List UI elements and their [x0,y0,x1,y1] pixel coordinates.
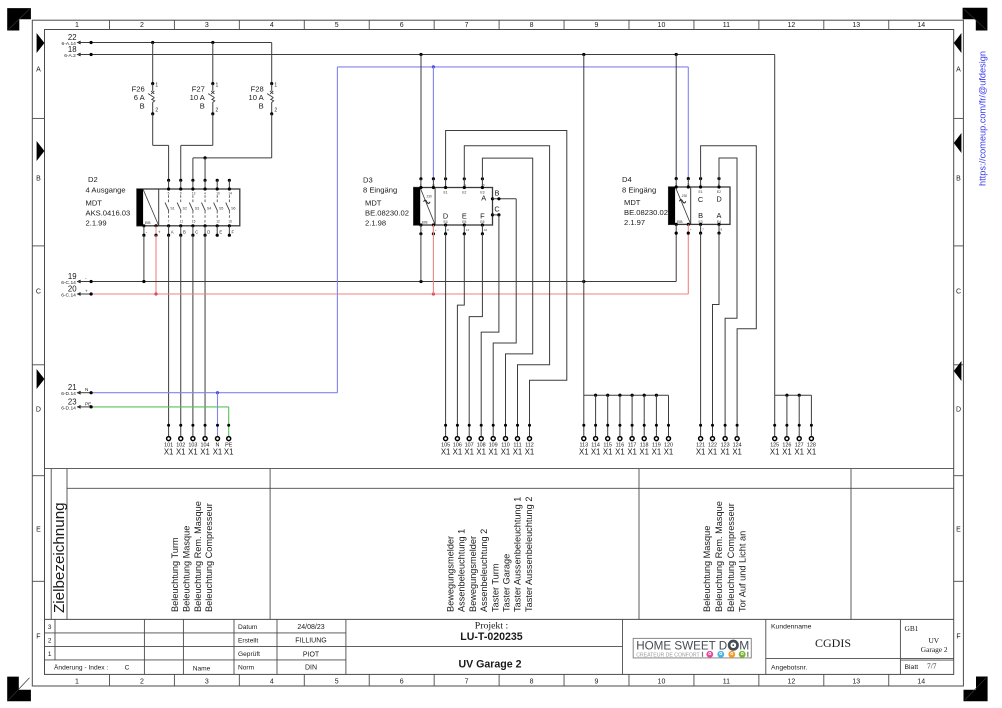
svg-text:2: 2 [216,108,219,114]
svg-text:X1: X1 [652,447,662,456]
svg-text:BE.08230.02: BE.08230.02 [624,208,668,217]
wire D2 output D to terminal 104 [204,235,206,436]
blue N drop to module D3 [432,67,434,179]
destination label Tor Auf und Licht an (col 124) [738,531,748,612]
svg-text:E: E [956,527,961,534]
title block date fields [238,624,327,672]
svg-text:Erstellt: Erstellt [238,637,258,644]
svg-text:4: 4 [270,679,274,686]
svg-text:X1: X1 [513,447,523,456]
svg-text:8 Eingäng: 8 Eingäng [622,185,656,194]
terminal X1 119 [652,424,662,457]
svg-text:C: C [494,204,500,213]
svg-text:7: 7 [465,22,469,29]
svg-text:S3: S3 [195,206,199,210]
terminal X1 N [213,424,223,457]
terminal X1 125 [770,424,780,457]
svg-text:6-C.14: 6-C.14 [61,292,76,298]
svg-text:E: E [219,229,222,234]
svg-text:9: 9 [595,22,599,29]
svg-text:1: 1 [48,651,52,658]
svg-text:X1: X1 [441,447,451,456]
svg-text:+: + [690,227,692,231]
module D3 labels [363,175,409,227]
svg-text:B: B [956,176,961,183]
svg-text:Beleuchtung Rem. Masque: Beleuchtung Rem. Masque [193,501,203,612]
svg-text:10: 10 [658,22,666,29]
module D3 body (8 Eingang MDT BE.08230.02) [414,188,493,226]
wire 21 N (6-D.14) blue horizontal [61,67,337,397]
terminal X1 127 [794,424,804,457]
terminal X1 102 [176,424,186,457]
svg-text:7: 7 [168,220,170,224]
svg-text:DIN: DIN [305,665,317,672]
svg-text:C: C [698,195,704,204]
svg-text:2.1.97: 2.1.97 [624,218,645,227]
svg-text:22: 22 [68,33,77,42]
svg-text:MDT: MDT [365,198,382,207]
wire D3 plus down to wire 20 (red) [432,226,434,294]
svg-text:CGDIS: CGDIS [815,636,851,650]
terminal X1 113 [579,424,589,457]
svg-text:F: F [232,229,235,234]
svg-text:Beleuchtung Compresseur: Beleuchtung Compresseur [726,503,736,612]
svg-text:2: 2 [140,22,144,29]
svg-text:2: 2 [48,637,52,644]
svg-text:4 Ausgange: 4 Ausgange [86,186,126,195]
svg-text:B: B [259,101,264,110]
svg-text:8: 8 [530,22,534,29]
left reference band row separators and letters [32,67,44,641]
module D4 top pin stubs [675,177,721,189]
svg-text:8: 8 [204,220,206,224]
wire loop D3 E3 over module to terminal 110 feed [482,158,532,436]
svg-text:13: 13 [192,191,196,195]
svg-text:X1: X1 [639,447,649,456]
left band fold mark triangles [37,33,45,389]
sheet info field GB1 UV Garage 2 Blatt 7/7 [900,624,953,671]
svg-text:E2: E2 [717,190,721,194]
svg-text:C: C [36,289,41,296]
svg-text:Tor Auf und Licht an: Tor Auf und Licht an [738,531,748,612]
svg-text:12: 12 [216,220,220,224]
svg-text:X1: X1 [615,447,625,456]
svg-text:15: 15 [192,220,196,224]
svg-text:2.1.98: 2.1.98 [365,218,386,227]
wire D2 output A to terminal 101 [168,235,170,436]
logo HOME SWEET DOM [633,638,751,658]
terminal X1 118 [639,424,649,457]
svg-text:20: 20 [68,284,77,293]
wire loop D3 E2 over module to terminal 111 feed [464,146,549,437]
destination label Assenbeleuchtung 1 (col 106) [457,529,467,612]
svg-text:EIB: EIB [422,220,428,224]
svg-text:X1: X1 [627,447,637,456]
svg-text:X1: X1 [453,447,463,456]
wire D2 plus pin down to wire 20 (red) [155,235,157,294]
svg-text:7: 7 [465,679,469,686]
svg-text:D: D [956,407,961,414]
wire D3 D pin down to terminal 105 [445,234,447,436]
module D3 right pin C [491,204,501,216]
svg-text:UV: UV [928,636,939,645]
svg-text:S4: S4 [207,206,211,210]
svg-text:-: - [422,228,423,232]
corner crop mark bottom-right [964,677,988,702]
svg-text:E1: E1 [699,190,703,194]
module D2 top pin stubs [167,179,231,191]
svg-text:X1: X1 [579,447,589,456]
svg-text:A: A [36,67,41,74]
terminal X1 123 [720,424,730,457]
destination label Beleuchtung Compresseur (col 104) [204,503,214,612]
svg-text:X1: X1 [224,447,234,456]
svg-text:5: 5 [168,191,170,195]
bottom reference band column ticks and numbers [75,674,925,686]
destination label Beleuchtung Rem. Masque (col 122) [714,501,724,612]
svg-text:Kundenname: Kundenname [771,623,812,630]
svg-text:16: 16 [228,220,232,224]
svg-text:Beleuchtung Masque: Beleuchtung Masque [702,526,712,612]
wire 19 (6-C.14) horizontal [61,233,676,286]
svg-text:D: D [207,229,210,234]
terminal X1 120 [664,424,674,457]
svg-text:X1: X1 [770,447,780,456]
svg-text:X1: X1 [525,447,535,456]
module D4 labels [622,175,668,227]
svg-text:Beleuchtung Rem. Masque: Beleuchtung Rem. Masque [714,501,724,612]
svg-text:MDT: MDT [624,198,641,207]
module D2 bottom pin stubs with letters [142,224,234,237]
svg-text:A: A [956,67,961,74]
svg-text:CREATEUR DE CONFORT: CREATEUR DE CONFORT [636,653,700,659]
circuit breaker F27 10A [181,43,219,181]
svg-text:1: 1 [155,83,158,89]
svg-text:N: N [687,183,689,187]
corner crop mark top-right [963,8,988,31]
svg-text:Assenbeleuchtung 2: Assenbeleuchtung 2 [479,529,489,612]
svg-text:6-D.14: 6-D.14 [61,391,76,397]
bus for terminals 113-120 [584,394,669,437]
svg-text:13: 13 [852,22,860,29]
svg-text:Name: Name [193,665,211,672]
terminal X1 116 [615,424,625,457]
svg-text:230: 230 [682,194,688,198]
svg-text:2: 2 [140,679,144,686]
svg-text:B: B [495,188,500,197]
svg-text:+: + [435,228,437,232]
svg-text:X1: X1 [782,447,792,456]
module D4 input letters B A with E3 E4 [698,211,721,224]
svg-text:E: E [36,527,41,534]
module D4 body (8 Eingang MDT BE.08230.02) [669,187,730,224]
svg-text:8: 8 [530,679,534,686]
wire D4 B pin down to terminal 121 [700,233,702,436]
destination label Taster Aussenbeleuchtung 1 (col 111) [513,497,523,612]
blue N bus horizontal at top [337,65,688,68]
corner crop mark top-left [7,8,31,30]
svg-text:E1: E1 [444,190,448,194]
module D4 input letters C D with E1 E2 [698,190,722,204]
terminal X1 108 [476,424,486,457]
top reference band column ticks and numbers [75,20,925,29]
svg-text:D4: D4 [622,175,632,184]
wire 18 drop to module D3 L pin [420,55,422,179]
right reference band row separators and letters [954,67,964,641]
svg-text:2.1.99: 2.1.99 [86,218,107,227]
wire D3 E pin down to terminal 106 [457,234,464,436]
svg-text:X1: X1 [708,447,718,456]
project name field [458,621,522,671]
svg-text:MDT: MDT [86,198,103,207]
svg-text:Garage 2: Garage 2 [921,645,948,654]
destination label Taster Turm (col 109) [490,563,500,612]
svg-text:N: N [432,183,434,187]
svg-text:X1: X1 [664,447,674,456]
svg-text:8 Eingäng: 8 Eingäng [363,186,397,195]
svg-text:14: 14 [917,679,925,686]
svg-text:HOME SWEET D: HOME SWEET D [636,638,727,652]
terminal X1 115 [603,424,613,457]
terminal X1 128 [807,424,817,457]
svg-text:X1: X1 [696,447,706,456]
svg-text:23: 23 [68,397,77,406]
svg-text:X1: X1 [213,447,223,456]
revision index rows 3 2 1 [48,624,52,658]
customer name field CGDIS [771,623,851,671]
svg-text:F: F [36,634,40,641]
svg-text:E: E [462,211,467,220]
wire D3 F pin down to terminal 107 [469,234,482,436]
terminal X1 109 [488,424,498,457]
svg-text:F: F [956,634,960,641]
svg-text:Taster Garage: Taster Garage [502,554,512,612]
svg-text:11: 11 [463,183,466,187]
module D3 bottom pin stubs [419,223,487,235]
svg-text:13: 13 [852,679,860,686]
svg-text:X1: X1 [200,447,210,456]
svg-text:-: - [678,227,679,231]
svg-text:1: 1 [75,679,79,686]
destination label Taster Aussenbeleuchtung 2 (col 112) [524,497,534,612]
revision footer Anderung Index C Name [54,664,211,673]
svg-text:230: 230 [427,194,433,198]
title block grid [45,619,954,674]
terminal X1 124 [732,424,742,457]
svg-text:12: 12 [787,22,795,29]
svg-text:EIB: EIB [145,221,151,225]
svg-text:Beleuchtung Compresseur: Beleuchtung Compresseur [204,503,214,612]
destination label Beleuchtung Compresseur (col 123) [726,503,736,612]
svg-text:15: 15 [481,183,485,187]
terminal X1 110 [501,424,511,457]
svg-text:D3: D3 [363,175,373,184]
blue N drop to module D4 [687,67,689,179]
wire D3 C pin down to terminal 108 [481,215,499,436]
wire D2 output B to terminal 102 [180,235,182,436]
wire 23 PE (6-D.14) green horizontal [61,397,228,436]
destination label Bewegungsmelder (col 105) [446,536,456,612]
svg-text:11: 11 [723,679,730,686]
svg-text:S5: S5 [219,206,223,210]
destination label Beleuchtung Turm (col 101) [170,537,180,612]
svg-text:Geprüft: Geprüft [238,651,260,658]
wire loop D4 D over module to terminal 123 [719,158,737,436]
svg-text:10: 10 [216,191,220,195]
terminal X1 117 [627,424,637,457]
wire 22 (6-A.14) horizontal feeder [61,33,271,47]
wire 18 drop to terminals 113-120 bus [583,55,585,396]
terminal X1 121 [696,424,706,457]
module D3 top pin stubs [419,177,485,189]
svg-text:X1: X1 [501,447,511,456]
svg-text:5: 5 [335,679,339,686]
terminal X1 114 [591,424,601,457]
right band fold mark triangles [954,33,962,381]
svg-text:EIB: EIB [677,220,683,224]
svg-text:21: 21 [68,383,77,392]
svg-text:AKS.0416.03: AKS.0416.03 [86,208,131,217]
svg-text:+: + [85,289,88,294]
svg-text:Taster Turm: Taster Turm [490,563,500,612]
svg-text:BE.08230.02: BE.08230.02 [365,208,409,217]
circuit breaker F26 6A [132,43,169,181]
svg-text:Norm: Norm [238,664,255,671]
wire F28 branch to D2 pin 4 [203,156,206,180]
circuit breaker F28 10A [193,43,278,181]
svg-text:6-A.2: 6-A.2 [64,53,76,59]
svg-text:D: D [716,194,721,203]
svg-text:9: 9 [180,191,182,195]
wire loop D4 C over module to terminal 124 [701,146,757,437]
wire D4 A pin down to terminal 122 [713,233,720,436]
svg-text:A: A [171,229,174,234]
svg-text:C: C [956,289,961,296]
bus for terminals 125-128 [775,394,812,437]
svg-text:UV Garage 2: UV Garage 2 [458,658,521,670]
svg-text:X1: X1 [164,447,174,456]
svg-text:Assenbeleuchtung 1: Assenbeleuchtung 1 [457,529,467,612]
svg-text:7/7: 7/7 [927,662,937,671]
wire 20 (6-C.14) red horizontal [61,233,688,298]
module D3 input labels E1 E2 E3 and letter A [444,190,487,202]
terminal X1 107 [464,424,474,457]
svg-text:10: 10 [658,679,666,686]
svg-text:M: M [739,638,749,652]
svg-text:X1: X1 [807,447,817,456]
module D2 body (4 Ausgange MDT AKS.0416.03) [137,189,240,226]
module D2 labels [86,175,131,227]
svg-text:1: 1 [216,83,219,89]
destination label Beleuchtung Rem. Masque (col 103) [193,501,203,612]
wire D2 output C to terminal 103 [192,235,194,436]
svg-text:GB1: GB1 [905,624,919,633]
svg-text:12: 12 [466,228,470,232]
svg-text:X1: X1 [720,447,730,456]
svg-text:X1: X1 [476,447,486,456]
wire N drop to terminal X1-N [217,393,219,437]
svg-text:2: 2 [155,108,158,114]
svg-text:14: 14 [228,191,232,195]
wire D3 minus down to wire 19 [420,234,422,282]
svg-text:S1: S1 [170,206,174,210]
terminal X1 104 [200,424,210,457]
svg-text:PIOT: PIOT [303,652,320,659]
terminal X1 112 [525,424,535,457]
svg-text:Beleuchtung Turm: Beleuchtung Turm [170,537,180,612]
svg-text:F: F [480,211,485,220]
wire D2 minus pin down to wire 19 [143,235,145,281]
svg-text:1: 1 [75,22,79,29]
terminal X1 122 [708,424,718,457]
svg-text:X1: X1 [794,447,804,456]
svg-text:1: 1 [274,83,277,89]
module D3 letters D E F with E4 E5 E6 [443,211,485,224]
svg-text:LU-T-020235: LU-T-020235 [460,631,523,643]
svg-text:https://comeup.com/fr/@ufdesig: https://comeup.com/fr/@ufdesign [978,51,988,186]
terminal X1 103 [188,424,198,457]
svg-text:E2: E2 [462,190,466,194]
svg-text:D2: D2 [88,175,98,184]
vertical blue watermark link text [978,51,988,186]
terminal X1 126 [782,424,792,457]
destination label Beleuchtung Masque (col 121) [702,526,712,612]
svg-text:11: 11 [723,22,730,29]
svg-text:16: 16 [484,228,488,232]
svg-text:6-D.14: 6-D.14 [61,405,76,411]
terminal X1 111 [513,424,523,457]
svg-text:4: 4 [204,191,206,195]
svg-text:Beleuchtung Masque: Beleuchtung Masque [181,526,191,612]
svg-text:3: 3 [48,624,52,631]
module D4 bottom pin stubs [675,223,723,235]
svg-text:24/08/23: 24/08/23 [297,624,324,631]
wire 18 (6-A.2) horizontal feeder [64,45,775,59]
svg-text:C: C [125,665,130,672]
svg-text:B: B [183,229,186,234]
svg-text:B: B [140,101,145,110]
svg-text:X1: X1 [603,447,613,456]
svg-text:Datum: Datum [238,624,258,631]
svg-text:FILLIUNG: FILLIUNG [295,638,327,645]
svg-text:X1: X1 [732,447,742,456]
svg-text:3: 3 [205,679,209,686]
svg-text:S2: S2 [183,206,187,210]
terminal X1 PE [224,424,234,457]
destination label Bewegungsmelder (col 107) [468,536,478,612]
svg-text:X1: X1 [176,447,186,456]
svg-text:18: 18 [68,45,77,54]
svg-text:N: N [85,387,88,392]
svg-text:6: 6 [400,679,404,686]
svg-text:Bewegungsmelder: Bewegungsmelder [446,536,456,612]
svg-text:9: 9 [595,679,599,686]
wire loop D3 E1 over module to terminal 112 feed [446,131,567,437]
svg-text:2: 2 [274,108,277,114]
svg-text:Blatt: Blatt [905,664,919,671]
svg-text:Zielbezeichnung: Zielbezeichnung [51,502,68,613]
svg-text:D: D [443,211,448,220]
svg-text:Bewegungsmelder: Bewegungsmelder [468,536,478,612]
svg-text:Taster Aussenbeleuchtung 1: Taster Aussenbeleuchtung 1 [513,497,523,612]
svg-text:X1: X1 [591,447,601,456]
svg-text:X1: X1 [488,447,498,456]
module D2 switch channels S1-S6 [165,191,175,223]
wire 18 drop to module D4 L pin [675,55,677,179]
svg-text:3: 3 [205,22,209,29]
label Zielbezeichnung [51,502,68,613]
svg-text:11: 11 [180,220,184,224]
